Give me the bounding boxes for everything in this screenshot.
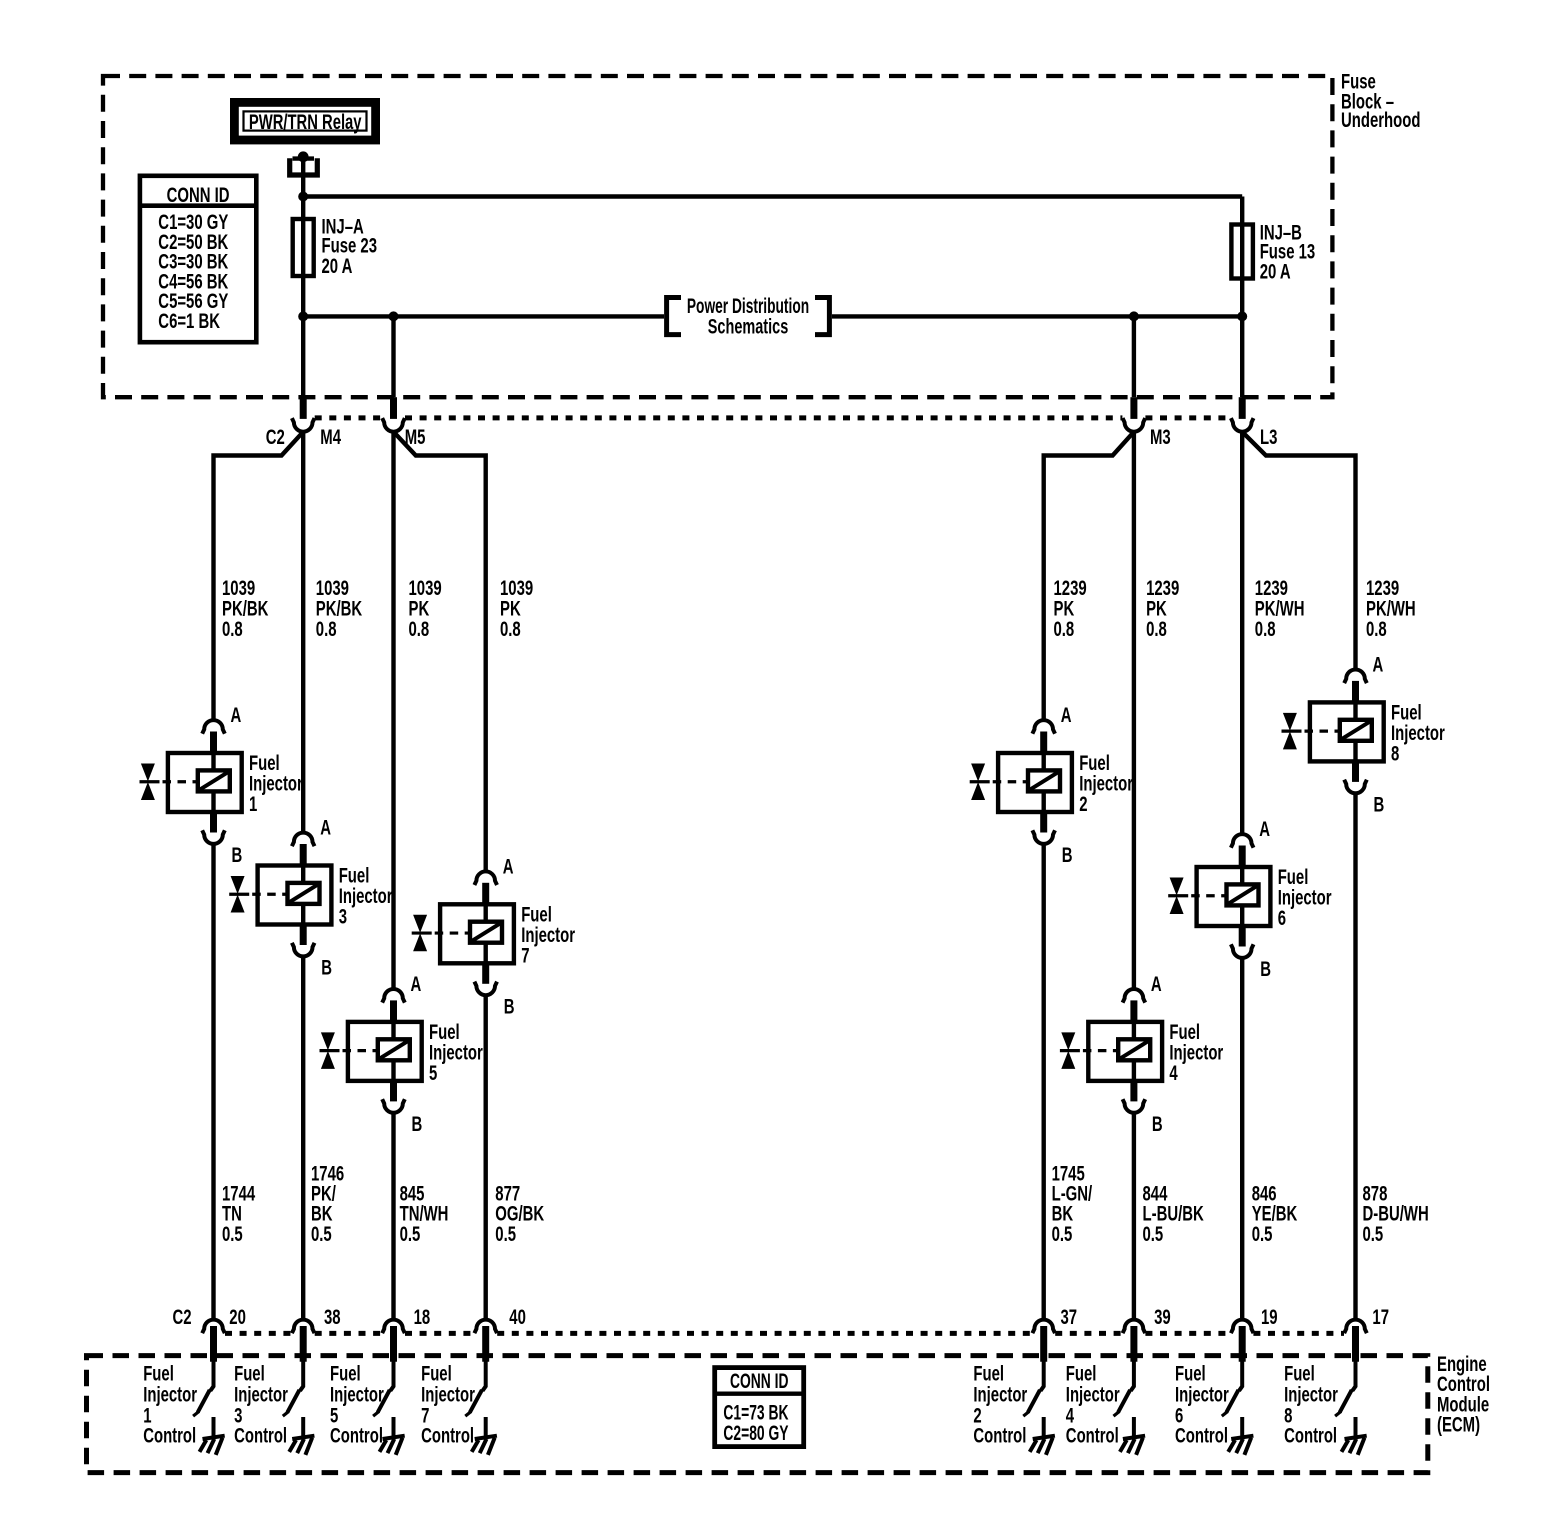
connector pin labels C2 M4 M5 M3 L3 <box>266 426 1278 449</box>
svg-text:40: 40 <box>509 1306 526 1329</box>
fuse INJ-A Fuse 23 20 A <box>293 215 377 278</box>
svg-text:B: B <box>504 995 515 1018</box>
wire 1239 PK/WH (L3 to injector 8) <box>1242 432 1355 670</box>
svg-text:4: 4 <box>1169 1061 1178 1084</box>
wire 1744 TN (injector to ECM) <box>211 844 215 1320</box>
wire 1239 PK/WH (L3 to injector 6) <box>1240 432 1244 834</box>
CONN ID table (ECM) <box>715 1368 804 1447</box>
wire: INJ-B fuse branch down to connector L3 <box>1240 197 1244 398</box>
wire 1746 PK/BK (injector to ECM) <box>301 957 305 1320</box>
svg-text:0.8: 0.8 <box>1366 617 1387 640</box>
wire: branch down to connector M3 <box>1132 316 1136 397</box>
wire label 1744 TN 0.5 <box>222 1182 256 1246</box>
svg-text:Control: Control <box>1175 1424 1228 1447</box>
svg-text:Fuel: Fuel <box>234 1362 265 1385</box>
wire label 1745 L-GN/ BK 0.5 <box>1052 1162 1093 1246</box>
svg-text:B: B <box>412 1112 423 1135</box>
wire label 1239 PK/WH 0.8 <box>1366 577 1416 641</box>
svg-text:Injector: Injector <box>1066 1383 1120 1406</box>
svg-text:2: 2 <box>1079 793 1087 816</box>
ECM pin 17: injector 8 driver (switch and ground) <box>1335 1320 1367 1455</box>
fuel injector 3 (coil, valve, terminals A/B) <box>229 816 392 979</box>
wire label 1039 PK 0.8 <box>500 577 533 641</box>
svg-text:3: 3 <box>339 905 347 928</box>
svg-text:C2: C2 <box>266 426 285 449</box>
svg-text:Control: Control <box>330 1424 383 1447</box>
wire label 844 L-BU/BK 0.5 <box>1143 1182 1204 1246</box>
svg-text:C2=80 GY: C2=80 GY <box>723 1421 788 1445</box>
label: Fuel Injector 8 Control <box>1284 1362 1338 1447</box>
svg-text:Injector: Injector <box>1175 1383 1229 1406</box>
ECM pin 40: injector 7 driver (switch and ground) <box>465 1320 497 1455</box>
svg-text:17: 17 <box>1372 1306 1389 1329</box>
svg-text:Fuel: Fuel <box>1175 1362 1206 1385</box>
CONN ID table (fuse block) <box>140 176 256 342</box>
label: Fuel Injector 5 Control <box>330 1362 384 1447</box>
fuel injector 8 (coil, valve, terminals A/B) <box>1282 653 1445 816</box>
svg-text:39: 39 <box>1154 1306 1171 1329</box>
wire label 1039 PK/BK 0.8 <box>316 577 362 641</box>
wire 877 OG/BK (injector to ECM) <box>484 995 488 1319</box>
svg-text:Injector: Injector <box>330 1383 384 1406</box>
svg-text:C2: C2 <box>173 1306 192 1329</box>
svg-text:Injector: Injector <box>973 1383 1027 1406</box>
svg-text:Fuel: Fuel <box>973 1362 1004 1385</box>
svg-text:Fuel: Fuel <box>143 1362 174 1385</box>
wire 1239 PK (M3 to injector 4) <box>1132 432 1136 989</box>
label: Fuel Injector 1 Control <box>143 1362 197 1447</box>
wire 1239 PK (M3 to injector 2) <box>1044 432 1134 720</box>
wire label 1039 PK 0.8 <box>409 577 442 641</box>
svg-text:Injector: Injector <box>143 1383 197 1406</box>
svg-text:Injector: Injector <box>234 1383 288 1406</box>
in-line connector L3 <box>1231 397 1254 431</box>
svg-text:Control: Control <box>1066 1424 1119 1447</box>
connector row dotted line (fuse block outputs) <box>315 415 1231 420</box>
svg-text:5: 5 <box>429 1061 437 1084</box>
fuel injector 1 (coil, valve, terminals A/B) <box>140 704 303 867</box>
wire: branch down to connector M5 <box>391 316 395 397</box>
svg-text:B: B <box>321 956 332 979</box>
wire 1745 L-GN/BK (injector to ECM) <box>1041 844 1045 1320</box>
svg-text:0.5: 0.5 <box>400 1222 421 1245</box>
wire 844 L-BU/BK (injector to ECM) <box>1132 1113 1136 1320</box>
Fuse Block - Underhood dashed boundary box <box>103 76 1332 397</box>
label: Fuel Injector 7 Control <box>421 1362 475 1447</box>
svg-text:20 A: 20 A <box>322 255 353 278</box>
svg-text:0.8: 0.8 <box>316 617 337 640</box>
fuel injector 2 (coil, valve, terminals A/B) <box>970 704 1133 867</box>
svg-text:A: A <box>411 972 422 995</box>
wire 1039 PK/BK (C2 to injector 1) <box>214 432 304 720</box>
label: Engine Control Module (ECM) <box>1437 1352 1490 1436</box>
svg-text:0.5: 0.5 <box>311 1222 332 1245</box>
junction node at fuse INJ-A output <box>298 311 308 321</box>
svg-text:38: 38 <box>324 1306 341 1329</box>
ECM pin 18: injector 5 driver (switch and ground) <box>373 1320 405 1455</box>
svg-text:Control: Control <box>234 1424 287 1447</box>
svg-text:CONN ID: CONN ID <box>730 1369 789 1393</box>
svg-text:0.5: 0.5 <box>1363 1222 1384 1245</box>
PWR/TRN Relay label box <box>230 98 380 144</box>
ECM pin 39: injector 4 driver (switch and ground) <box>1114 1320 1146 1455</box>
svg-text:Control: Control <box>973 1424 1026 1447</box>
svg-text:7: 7 <box>521 944 529 967</box>
wire 1039 PK (M5 to injector 7) <box>394 432 486 872</box>
wire label 1239 PK 0.8 <box>1054 577 1087 641</box>
svg-text:A: A <box>503 855 514 878</box>
svg-text:CONN ID: CONN ID <box>167 184 230 207</box>
svg-text:B: B <box>232 844 243 867</box>
ECM pin 19: injector 6 driver (switch and ground) <box>1222 1320 1254 1455</box>
svg-text:0.8: 0.8 <box>1146 617 1167 640</box>
svg-text:37: 37 <box>1061 1306 1078 1329</box>
svg-text:6: 6 <box>1278 907 1286 930</box>
svg-text:Control: Control <box>143 1424 196 1447</box>
svg-text:1: 1 <box>249 793 257 816</box>
wire label 878 D-BU/WH 0.5 <box>1363 1182 1429 1246</box>
fuel injector 6 (coil, valve, terminals A/B) <box>1168 818 1331 981</box>
svg-text:A: A <box>1061 704 1072 727</box>
wire 1039 PK (M5 to injector 5) <box>391 432 395 989</box>
svg-text:Control: Control <box>421 1424 474 1447</box>
in-line connector M3 <box>1123 397 1146 431</box>
ECM pin number labels <box>173 1306 1389 1329</box>
svg-text:Injector: Injector <box>1284 1383 1338 1406</box>
svg-text:B: B <box>1374 793 1385 816</box>
wire label 1239 PK 0.8 <box>1146 577 1179 641</box>
svg-text:Fuel: Fuel <box>1066 1362 1097 1385</box>
svg-text:A: A <box>231 704 242 727</box>
ECM pin 37: injector 2 driver (switch and ground) <box>1023 1320 1055 1455</box>
svg-text:L3: L3 <box>1260 426 1277 449</box>
svg-text:20: 20 <box>229 1306 246 1329</box>
svg-text:0.5: 0.5 <box>1143 1222 1164 1245</box>
svg-text:0.8: 0.8 <box>409 617 430 640</box>
label: Fuel Injector 3 Control <box>234 1362 288 1447</box>
wire: Power Distribution bracket to INJ-B branch <box>832 314 1242 318</box>
junction node M3 branch <box>1129 311 1139 321</box>
svg-text:0.5: 0.5 <box>1252 1222 1273 1245</box>
wire 878 D-BU/WH (injector to ECM) <box>1353 793 1357 1319</box>
wire label 877 OG/BK 0.5 <box>495 1182 544 1246</box>
ECM pin C2 20: injector 1 driver (switch and ground) <box>193 1320 225 1455</box>
fuel injector 7 (coil, valve, terminals A/B) <box>412 855 575 1018</box>
wire label 846 YE/BK 0.5 <box>1252 1182 1298 1246</box>
wire 845 TN/WH (injector to ECM) <box>391 1113 395 1320</box>
label: Fuse Block - Underhood <box>1341 70 1420 131</box>
svg-text:B: B <box>1152 1112 1163 1135</box>
svg-text:18: 18 <box>414 1306 431 1329</box>
svg-text:0.8: 0.8 <box>500 617 521 640</box>
fuse INJ-B Fuse 13 20 A <box>1231 221 1315 283</box>
label: Fuel Injector 6 Control <box>1175 1362 1229 1447</box>
svg-text:0.5: 0.5 <box>495 1222 516 1245</box>
fuel injector 5 (coil, valve, terminals A/B) <box>320 972 483 1135</box>
svg-text:A: A <box>1373 653 1384 676</box>
fuel injector 4 (coil, valve, terminals A/B) <box>1060 972 1223 1135</box>
ECM pin 38: injector 3 driver (switch and ground) <box>283 1320 315 1455</box>
wire label 1746 PK/ BK 0.5 <box>311 1162 344 1246</box>
svg-text:A: A <box>320 816 331 839</box>
svg-text:19: 19 <box>1261 1306 1278 1329</box>
svg-text:Fuel: Fuel <box>1284 1362 1315 1385</box>
wire: relay down through fuse INJ-A to connector C2/M4 <box>301 158 305 397</box>
svg-text:B: B <box>1260 958 1271 981</box>
svg-text:(ECM): (ECM) <box>1437 1413 1480 1436</box>
wire: top feed from relay to INJ-B fuse <box>303 194 1242 198</box>
svg-text:C6=1 BK: C6=1 BK <box>158 309 220 332</box>
svg-text:Injector: Injector <box>421 1383 475 1406</box>
svg-text:0.8: 0.8 <box>1255 617 1276 640</box>
wire label 845 TN/WH 0.5 <box>400 1182 449 1246</box>
wire: below fuse INJ-A to Power Distribution bracket <box>303 314 664 318</box>
junction node at fuse INJ-B output <box>1237 311 1247 321</box>
svg-text:B: B <box>1062 844 1073 867</box>
svg-text:M3: M3 <box>1150 426 1171 449</box>
svg-text:A: A <box>1151 972 1162 995</box>
junction node M5 branch <box>389 311 399 321</box>
svg-text:Fuel: Fuel <box>421 1362 452 1385</box>
label: Fuel Injector 2 Control <box>973 1362 1027 1447</box>
ECM connector row dotted line <box>225 1331 1344 1336</box>
wire 846 YE/BK (injector to ECM) <box>1240 958 1244 1320</box>
svg-text:0.5: 0.5 <box>222 1222 243 1245</box>
in-line connector M5 <box>382 397 405 431</box>
svg-text:20 A: 20 A <box>1260 260 1291 283</box>
label: Fuel Injector 4 Control <box>1066 1362 1120 1447</box>
svg-text:Underhood: Underhood <box>1341 108 1420 131</box>
svg-text:Fuel: Fuel <box>330 1362 361 1385</box>
off-page reference: Power Distribution Schematics <box>667 294 830 338</box>
svg-text:0.8: 0.8 <box>222 617 243 640</box>
svg-text:M4: M4 <box>320 426 341 449</box>
wire label 1239 PK/WH 0.8 <box>1255 577 1305 641</box>
svg-text:PWR/TRN Relay: PWR/TRN Relay <box>249 110 362 133</box>
relay output terminal symbol <box>290 151 318 175</box>
wire 1039 PK/BK (M4 to injector 3) <box>301 432 305 833</box>
svg-text:A: A <box>1259 818 1270 841</box>
svg-text:0.8: 0.8 <box>1054 617 1075 640</box>
svg-text:Schematics: Schematics <box>708 315 789 338</box>
svg-text:8: 8 <box>1391 742 1399 765</box>
svg-text:Control: Control <box>1284 1424 1337 1447</box>
svg-text:0.5: 0.5 <box>1052 1222 1073 1245</box>
Engine Control Module dashed boundary box <box>87 1356 1428 1473</box>
junction node: relay output to top feed <box>298 192 308 202</box>
in-line connector C2/M4 <box>292 397 315 431</box>
wire label 1039 PK/BK 0.8 <box>222 577 268 641</box>
